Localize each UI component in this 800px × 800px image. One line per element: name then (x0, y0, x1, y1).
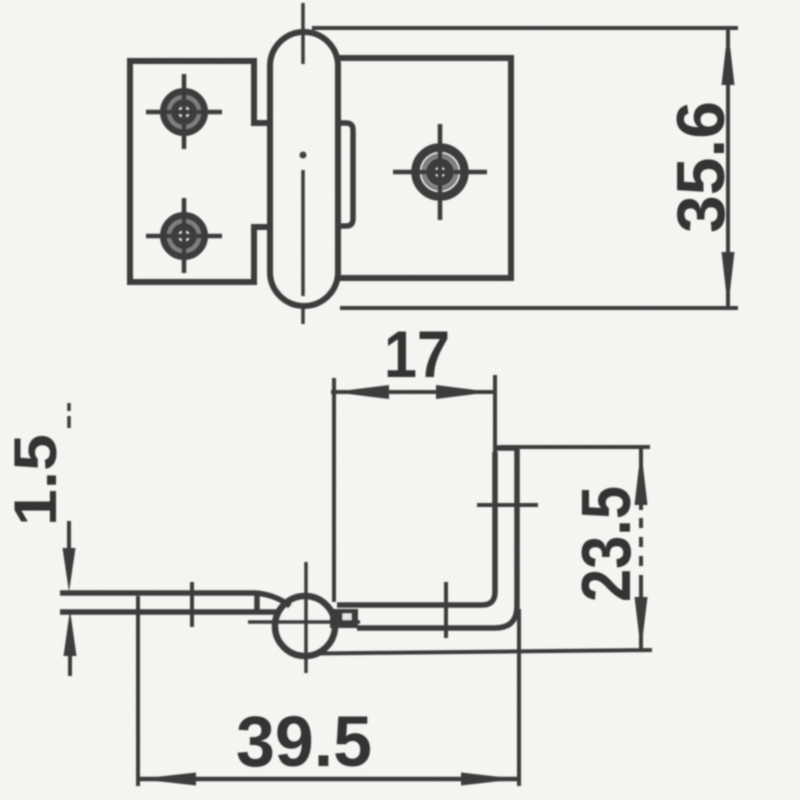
screw hole H3 (right plate) (393, 124, 487, 220)
dimension 1.5 extension dashes (67, 403, 71, 428)
right leaf plate (top view) (338, 58, 511, 278)
L-shaped right leaf (side view) (337, 448, 519, 628)
screw hole H2 (left plate, bottom) (146, 198, 222, 273)
dimension 17 arrows (333, 385, 491, 399)
dimension 35.6 line (726, 28, 730, 309)
dimension 39.5 extension lines (138, 596, 519, 786)
left leaf (side view) (60, 593, 290, 612)
middle knuckle rectangle (top view) (338, 123, 353, 226)
dimension 23.5 extension lines (317, 447, 652, 654)
barrel capsule (top view) (270, 32, 338, 306)
hole centerline tick on left leaf (190, 582, 194, 627)
step joining knuckle (330, 609, 358, 628)
left leaf plate (top view) (130, 61, 271, 282)
barrel centerline (top view) (301, 3, 305, 324)
dimension 23.5 arrows (635, 449, 648, 651)
dimension 35.6 arrows (722, 29, 735, 308)
dimension 1.5 arrows and lines (69, 521, 70, 676)
dimension 23.5 line (639, 447, 643, 652)
scan noise overlay (0, 0, 1, 1)
knuckle circle (side view) (275, 596, 335, 656)
dimension 17 line (331, 390, 493, 394)
dimension 35.6 extension lines (312, 28, 738, 308)
dimension 39.5 arrows (138, 773, 518, 786)
dimension 17 extension lines (334, 375, 495, 602)
hole tick on horizontal leg (444, 582, 448, 638)
knuckle circle centerlines (248, 562, 360, 673)
dimension 39.5 line (136, 777, 520, 782)
hole tick on vertical leg (477, 503, 538, 507)
screw hole H1 (left plate, top) (146, 74, 222, 149)
